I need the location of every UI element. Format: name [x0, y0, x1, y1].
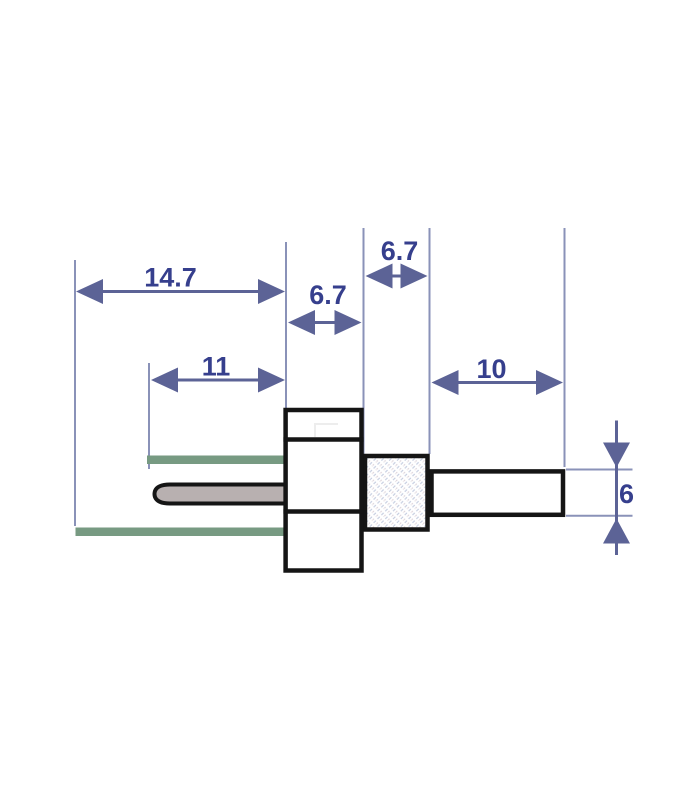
svg-text:6.7: 6.7: [381, 236, 419, 266]
extension line shaft right (x=564.5): [564, 228, 566, 467]
extension line hex left (x=286): [285, 242, 287, 408]
probe pin: [155, 485, 291, 504]
extension line thread right (x=429.5): [429, 228, 431, 454]
hex body: [286, 410, 362, 571]
hex body faint detail: [315, 424, 338, 437]
svg-text:6.7: 6.7: [309, 280, 347, 310]
hex body flat line upper: [283, 437, 363, 442]
dimension 6.7 (thread length) arrow: [366, 264, 428, 289]
shaft: [432, 471, 564, 514]
extension line pin start (x=149): [148, 363, 150, 469]
extension line left overall (x=75): [74, 260, 76, 526]
svg-text:14.7: 14.7: [144, 263, 197, 293]
green lead bottom: [76, 528, 287, 537]
dimension 6.7 (hex width) arrow: [288, 310, 362, 335]
svg-text:11: 11: [202, 352, 231, 382]
threaded stud (hatched): [365, 456, 428, 530]
extension line hex right / thread left (x=363.5): [363, 228, 365, 454]
green lead top: [147, 456, 286, 465]
dimension 11 arrow: [151, 368, 285, 393]
svg-text:10: 10: [476, 354, 506, 384]
dimension 14.7 arrow: [76, 279, 285, 304]
dimension 6 vertical arrows: [603, 421, 630, 556]
extension tick shaft top (y=469.5): [566, 469, 633, 471]
extension tick shaft bottom (y=515.75): [566, 515, 633, 517]
hex body flat line lower: [283, 509, 363, 514]
dimension 10 arrow: [432, 370, 564, 395]
svg-text:6: 6: [619, 479, 634, 509]
